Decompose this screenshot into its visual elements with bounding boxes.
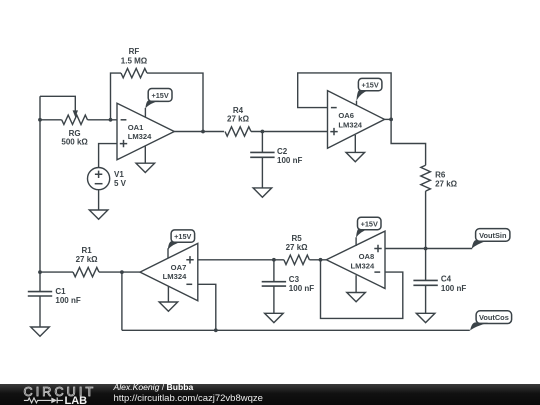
node R4 / C2 [261,130,265,134]
power flag +15V OA8 [356,217,381,238]
svg-text:VoutCos: VoutCos [479,313,509,322]
ground C2 [253,188,272,197]
power flag +15V OA7 [168,230,195,250]
wire OA8 feedback loop [321,260,403,319]
ground OA7 [159,302,178,311]
svg-text:+15V: +15V [174,232,191,241]
svg-text:1.5 MΩ: 1.5 MΩ [121,56,148,65]
wire C1 top [39,272,41,292]
label C2 [277,147,302,165]
resistor RF [121,68,147,77]
ground OA1 [136,163,155,172]
svg-text:OA6: OA6 [338,111,354,120]
wire OA1 power stub [144,108,146,118]
wire OA6 ground stub [354,135,356,153]
wire C4 top [425,249,427,281]
resistor R1 [73,267,99,276]
net flag VoutSin [472,229,510,249]
ground C3 [265,313,284,322]
svg-text:VoutSin: VoutSin [479,231,507,240]
wire C4 to ground [425,285,427,313]
wire RF top loop [111,73,122,120]
svg-text:27 kΩ: 27 kΩ [76,255,99,264]
wire OA7 noninverting line [198,259,284,261]
svg-text:RF: RF [129,47,140,56]
author credit [114,382,194,392]
svg-text:+15V: +15V [361,219,378,228]
node OA7 feedback / bottom line [214,328,218,332]
CircuitLab logo [0,384,110,405]
label C1 [55,287,80,305]
ground C4 [416,313,435,322]
wire OA8 power stub [355,237,357,246]
wire OA6 power stub [356,101,358,106]
wire VoutCos bottom line [122,329,470,331]
svg-text:R5: R5 [291,234,302,243]
wire OA6 output to node [385,118,392,120]
label RG [61,129,88,146]
op-amp OA6 [328,91,385,149]
svg-text:27 kΩ: 27 kΩ [286,243,309,252]
svg-text:LM324: LM324 [351,261,375,270]
svg-text:C2: C2 [277,147,288,156]
wire V1 to ground [98,190,100,210]
capacitor C4 [413,280,437,285]
wire OA7 output drop [121,272,123,330]
capacitor C1 [28,292,52,296]
resistor RG [62,115,88,124]
node C3 / R5 [272,258,276,262]
capacitor C2 [250,152,274,157]
svg-text:LAB: LAB [65,394,88,405]
wire VoutSin line [385,248,472,250]
svg-text:LM324: LM324 [163,272,187,281]
wire R5 to OA8 output [309,259,326,261]
wire OA6 output to R6 [391,119,426,165]
wire C3 top [273,260,275,282]
net flag VoutCos [470,311,512,331]
svg-text:500 kΩ: 500 kΩ [61,137,88,146]
ground V1 [89,210,108,219]
wire OA1 ground stub [144,146,146,163]
wire OA8 ground stub [355,275,357,292]
svg-text:C4: C4 [441,275,452,284]
node RG left [38,118,42,122]
svg-text:LM324: LM324 [338,120,362,129]
node R1 / OA7 output [120,270,124,274]
svg-text:OA8: OA8 [359,252,375,261]
op-amp OA8 [326,231,385,288]
wire OA7 power stub [167,248,169,258]
wire C2 top [261,132,263,153]
label R4 [227,106,250,124]
ground C1 [31,327,50,336]
op-amp OA1 [117,103,174,160]
wire R1 line [40,271,140,273]
label C4 [441,275,466,293]
wire OA7 inverting feedback [198,284,216,330]
node OA6 output [389,118,393,122]
svg-text:100 nF: 100 nF [55,296,80,305]
svg-text:C3: C3 [289,275,300,284]
wire OA7 ground stub [167,286,169,302]
wire C3 to ground [273,286,275,313]
svg-text:C1: C1 [55,287,66,296]
svg-text:V1: V1 [114,170,124,179]
wire V1 to OA1 noninverting input [99,144,117,168]
svg-text:+15V: +15V [151,91,168,100]
node R5 / OA8 output [319,258,323,262]
circuit URL [114,393,263,404]
svg-text:OA1: OA1 [128,123,144,132]
svg-text:100 nF: 100 nF [441,284,466,293]
svg-text:100 nF: 100 nF [289,284,314,293]
wire R6 to VoutSin node [425,191,427,248]
resistor R5 [284,255,310,264]
wire C2 to ground [261,157,263,188]
label C3 [289,275,314,293]
svg-text:5 V: 5 V [114,179,127,188]
label RF [121,47,148,65]
power flag +15V OA1 [145,89,172,109]
svg-text:LM324: LM324 [128,132,152,141]
wire RF right to OA1 output node [147,73,203,131]
svg-text:+15V: +15V [361,81,378,90]
wire C1 to ground [39,296,41,327]
wire OA6 feedback loop [298,73,391,120]
svg-text:27 kΩ: 27 kΩ [435,179,458,188]
voltage source V1 [88,168,110,190]
potentiometer RG wiper arrow [73,110,78,117]
power flag +15V OA6 [356,78,382,100]
resistor R6 [421,165,431,191]
op-amp OA7 [140,243,198,300]
node OA1 output / RF [201,130,205,134]
footer bar [0,384,540,405]
wire RG wiper loop [40,96,75,110]
svg-text:R4: R4 [233,106,244,115]
capacitor C3 [262,282,286,286]
ground OA8 [347,293,366,302]
label V1 [114,170,127,188]
svg-text:R1: R1 [81,246,92,255]
node R6 / C4 / VoutSin [424,247,428,251]
node RF / OA1 inverting [109,118,113,122]
label R6 [435,171,458,189]
resistor R4 [225,127,251,136]
node C1 / R1 [38,270,42,274]
wire OA1 inverting input line [40,119,117,121]
wire OA1 output [174,131,224,133]
wire left bus vertical [39,96,41,272]
svg-text:OA7: OA7 [171,263,187,272]
svg-text:27 kΩ: 27 kΩ [227,115,250,124]
wire R4 to OA6 noninverting input [251,131,328,133]
ground OA6 [346,152,365,161]
svg-text:100 nF: 100 nF [277,156,302,165]
label R1 [76,246,99,264]
label R5 [286,234,309,252]
